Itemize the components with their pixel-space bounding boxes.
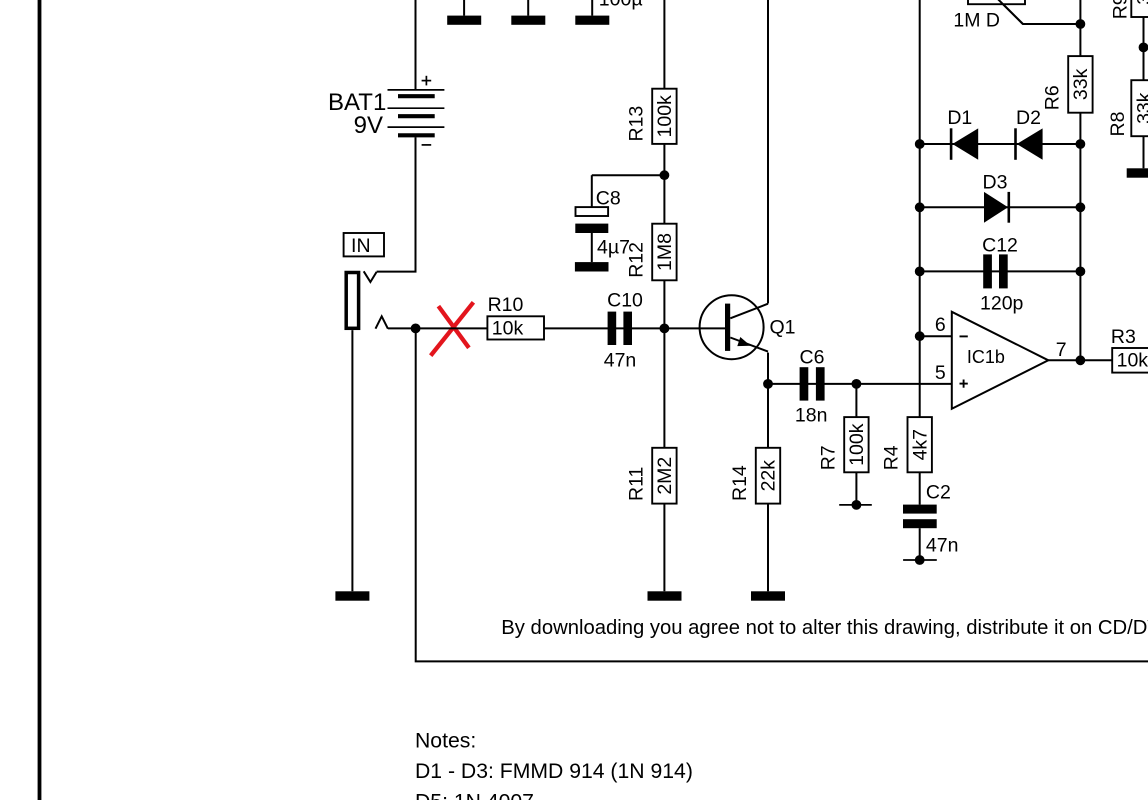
wire C8 vertical top bbox=[591, 175, 593, 207]
svg-text:R7: R7 bbox=[817, 445, 839, 470]
wire R8 to ground bbox=[1143, 136, 1145, 168]
wire jack sleeve to ground bbox=[351, 330, 353, 591]
svg-text:47n: 47n bbox=[604, 350, 637, 372]
wire R13 column top bbox=[663, 0, 665, 89]
wire inverting rail bbox=[919, 0, 921, 417]
svg-text:33k: 33k bbox=[1133, 0, 1148, 5]
capacitor C10 bbox=[608, 312, 617, 345]
wire D1 D2 row bbox=[920, 143, 1081, 145]
resistor R8 bbox=[1131, 80, 1148, 136]
wire R11 to ground bbox=[663, 504, 665, 592]
svg-text:D3: D3 bbox=[983, 172, 1008, 194]
resistor R11 bbox=[652, 448, 676, 504]
svg-text:1M8: 1M8 bbox=[654, 233, 676, 271]
node A input bbox=[411, 324, 421, 334]
svg-text:Q1: Q1 bbox=[770, 316, 796, 338]
node I D1 row left bbox=[915, 139, 925, 149]
svg-text:C10: C10 bbox=[607, 290, 643, 312]
svg-text:Notes:: Notes: bbox=[415, 729, 476, 752]
frame border bbox=[416, 328, 1148, 661]
node G C2 bottom bbox=[915, 555, 925, 565]
wire collector column Q1 bbox=[767, 0, 769, 304]
page border left bbox=[38, 0, 42, 800]
svg-text:C6: C6 bbox=[800, 346, 825, 368]
ground C8 bbox=[575, 262, 609, 271]
wire D3 row bbox=[920, 206, 1081, 208]
svg-text:120p: 120p bbox=[980, 293, 1024, 315]
node F R7 bottom bbox=[852, 500, 862, 510]
wire pin5 row bbox=[768, 383, 952, 385]
wire R7 bottom bbox=[855, 472, 857, 505]
svg-text:R8: R8 bbox=[1107, 112, 1129, 137]
svg-text:C12: C12 bbox=[982, 234, 1018, 256]
ground R14 bbox=[751, 591, 785, 600]
node P C12 row right bbox=[1076, 267, 1086, 277]
resistor R14 bbox=[756, 448, 780, 504]
resistor R13 bbox=[652, 89, 676, 144]
svg-text:R6: R6 bbox=[1041, 85, 1063, 110]
node J D3 row left bbox=[915, 202, 925, 212]
transistor Q1 bbox=[700, 295, 796, 359]
node K C12 row left bbox=[915, 267, 925, 277]
wire ground stem 2 bbox=[527, 0, 529, 16]
battery minus sign bbox=[422, 144, 432, 146]
wire C8 horizontal bbox=[592, 174, 665, 176]
svg-text:1M D: 1M D bbox=[953, 10, 1000, 32]
node L output bbox=[1076, 355, 1086, 365]
node H pin6 junction bbox=[915, 331, 925, 341]
wire output rail right bbox=[1079, 0, 1081, 360]
resistor R6 bbox=[1068, 56, 1092, 113]
node D emitter junction bbox=[763, 379, 773, 389]
diode D2 bbox=[1014, 128, 1017, 160]
resistor R7 bbox=[844, 417, 868, 472]
resistor R9 partial bbox=[1131, 0, 1148, 17]
wire stub R7 bottom rail bbox=[839, 504, 872, 506]
svg-text:100k: 100k bbox=[846, 423, 868, 466]
svg-text:R14: R14 bbox=[729, 465, 751, 501]
diode D3 bbox=[984, 192, 1008, 223]
svg-text:2M2: 2M2 bbox=[654, 457, 676, 495]
ground top 3 bbox=[575, 16, 609, 25]
ground R8 bbox=[1127, 168, 1148, 177]
svg-text:R4: R4 bbox=[881, 445, 903, 470]
svg-text:R11: R11 bbox=[625, 467, 647, 501]
node O D3 row right bbox=[1076, 202, 1086, 212]
svg-text:By downloading you agree not t: By downloading you agree not to alter th… bbox=[501, 617, 1148, 639]
svg-text:R12: R12 bbox=[625, 242, 647, 278]
wire R4 bottom bbox=[919, 472, 921, 504]
node E pin5 junction bbox=[852, 379, 862, 389]
svg-text:22k: 22k bbox=[758, 460, 780, 492]
node M trimmer wiper bbox=[1076, 19, 1086, 29]
svg-text:6: 6 bbox=[935, 314, 946, 336]
svg-text:18n: 18n bbox=[795, 404, 828, 426]
wire opamp output to R3 bbox=[1048, 359, 1112, 361]
wire R13 to R12 through node bbox=[663, 144, 665, 224]
svg-text:9V: 9V bbox=[354, 112, 383, 139]
svg-text:IC1b: IC1b bbox=[967, 347, 1005, 367]
node B R12 R13 junction bbox=[660, 170, 670, 180]
wire stub C2 bottom rail bbox=[903, 559, 937, 561]
capacitor C6 bbox=[800, 367, 809, 400]
resistor R3 bbox=[1112, 348, 1148, 373]
wire C8 to ground bbox=[591, 233, 593, 262]
svg-text:D1: D1 bbox=[947, 107, 972, 129]
jack J1 body bbox=[346, 273, 358, 329]
ground top 2 bbox=[511, 16, 545, 25]
X red cross bbox=[431, 302, 474, 355]
svg-text:R9: R9 bbox=[1109, 0, 1131, 19]
svg-text:IN: IN bbox=[351, 235, 371, 257]
wire ground stem 1 bbox=[463, 0, 465, 16]
svg-text:D5: 1N 4007: D5: 1N 4007 bbox=[415, 791, 534, 800]
svg-text:C2: C2 bbox=[926, 482, 951, 504]
svg-text:10k: 10k bbox=[492, 318, 524, 340]
wire pin6 bbox=[920, 335, 952, 337]
node Q right column bbox=[1139, 43, 1148, 53]
op-amp IC1b bbox=[952, 312, 1049, 409]
svg-text:7: 7 bbox=[1056, 339, 1067, 361]
capacitor C12 bbox=[983, 254, 992, 288]
svg-text:D1 - D3: FMMD 914 (1N 914): D1 - D3: FMMD 914 (1N 914) bbox=[415, 760, 693, 783]
svg-text:10k: 10k bbox=[1117, 349, 1148, 371]
resistor R12 bbox=[652, 224, 676, 281]
wire C2 bottom bbox=[919, 528, 921, 560]
diode D1 bbox=[950, 128, 953, 160]
wire input row bbox=[388, 327, 725, 329]
resistor R10 bbox=[487, 316, 544, 339]
wire ground stem 3 bbox=[591, 0, 593, 16]
svg-text:R13: R13 bbox=[625, 106, 647, 142]
svg-text:33k: 33k bbox=[1070, 68, 1092, 100]
node IN box bbox=[344, 233, 384, 256]
svg-text:33k: 33k bbox=[1133, 92, 1148, 124]
wire C12 row bbox=[920, 270, 1081, 272]
node C input C10 junction bbox=[660, 324, 670, 334]
wire trimmer wiper bbox=[998, 0, 1080, 24]
svg-text:5: 5 bbox=[935, 362, 946, 384]
capacitor C8 bbox=[576, 207, 609, 216]
battery plus sign bbox=[422, 80, 432, 82]
capacitor C2 bbox=[903, 505, 937, 514]
wire R9 to R8 bbox=[1143, 17, 1145, 80]
svg-text:R10: R10 bbox=[488, 294, 524, 316]
svg-text:C8: C8 bbox=[596, 187, 621, 209]
wire R14 to ground bbox=[767, 504, 769, 592]
ground jack bbox=[335, 591, 369, 600]
resistor R4 bbox=[908, 417, 932, 472]
ground top 1 bbox=[447, 16, 481, 25]
ground R11 bbox=[648, 591, 682, 600]
svg-text:100k: 100k bbox=[654, 95, 676, 138]
svg-text:47n: 47n bbox=[926, 535, 959, 557]
svg-text:4k7: 4k7 bbox=[909, 429, 931, 460]
svg-text:D2: D2 bbox=[1016, 107, 1041, 129]
jack ring contact bbox=[376, 316, 388, 328]
svg-text:100µ: 100µ bbox=[599, 0, 643, 10]
trimmer 1M body bbox=[968, 0, 1025, 4]
wire emitter down bbox=[767, 353, 769, 448]
battery BAT1 plates bbox=[388, 76, 445, 145]
wire R7 top bbox=[855, 384, 857, 417]
jack tip contact bbox=[364, 271, 377, 282]
svg-text:R3: R3 bbox=[1111, 326, 1136, 348]
wire node to R11 bbox=[663, 328, 665, 447]
wire R12 to input row bbox=[663, 280, 665, 328]
wire battery top bbox=[415, 0, 417, 89]
wire battery bottom to jack tip bbox=[377, 137, 416, 271]
node N D1 row right bbox=[1076, 139, 1086, 149]
